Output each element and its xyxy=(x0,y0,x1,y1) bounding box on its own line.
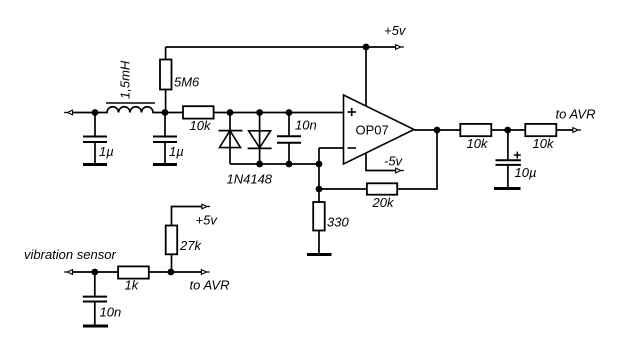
input arrow (signal in, left) xyxy=(64,110,72,115)
inductor L1 1,5mH xyxy=(95,103,165,113)
op-amp U1 OP07 xyxy=(344,95,415,164)
node A (input / C1 / L1 junction) xyxy=(92,109,99,116)
wire: node B to R2 xyxy=(165,112,183,114)
capacitor C2 1µ xyxy=(153,113,177,165)
svg-text:20k: 20k xyxy=(372,195,395,210)
power -5v arrow xyxy=(396,168,404,173)
node: filter tap (C4) xyxy=(504,127,511,134)
wire: op-amp V- pin xyxy=(366,153,396,171)
ground (C4) xyxy=(494,187,521,190)
capacitor C5 10n xyxy=(83,272,107,326)
capacitor C4 10µ (polarized) xyxy=(496,130,521,188)
value label 1,5mH (L1, rotated) xyxy=(118,60,133,99)
wire: node G to R4 xyxy=(319,188,367,190)
resistor R4 20k (feedback) xyxy=(367,183,397,194)
svg-text:10k: 10k xyxy=(533,136,555,151)
svg-text:10k: 10k xyxy=(190,118,212,133)
power +5v arrow (bottom) xyxy=(202,204,210,209)
svg-text:1k: 1k xyxy=(125,278,140,293)
node: D2 bottom junction xyxy=(256,161,263,168)
ground (C1) xyxy=(83,163,107,166)
wire: op-amp output to R5 xyxy=(414,129,460,131)
output arrow to AVR (bottom) xyxy=(201,270,209,275)
svg-text:-5v: -5v xyxy=(384,153,404,168)
node: C3 bottom junction xyxy=(286,161,293,168)
svg-text:5M6: 5M6 xyxy=(174,74,200,89)
wire: R6 to AVR arrow xyxy=(556,129,573,131)
wire: R4 to output node (up) xyxy=(397,130,437,189)
node G (feedback / R 330 junction) xyxy=(316,186,323,193)
svg-text:+5v: +5v xyxy=(196,212,219,227)
wire: sensor input to node H xyxy=(72,271,118,273)
ground (C5) xyxy=(83,325,108,328)
capacitor C1 1µ xyxy=(83,113,107,165)
wire: input arrow to node A xyxy=(72,112,95,114)
svg-text:1µ: 1µ xyxy=(99,144,114,159)
svg-text:1,5mH: 1,5mH xyxy=(118,60,133,99)
resistor R1 5M6 (vertical) xyxy=(160,47,172,113)
diode D1 1N4148 (cathode up) xyxy=(219,113,243,165)
power +5v arrow (top) xyxy=(396,45,404,50)
svg-text:to AVR: to AVR xyxy=(190,278,230,293)
wire: R7 to node I and AVR arrow xyxy=(149,271,202,273)
resistor R7 1k xyxy=(118,266,149,278)
node B (L1 / C2 / R 5M6 / R 10k junction) xyxy=(162,109,169,116)
diode D2 1N4148 (cathode down) xyxy=(248,113,272,165)
svg-text:OP07: OP07 xyxy=(356,122,389,137)
resistor R5 10k (output series 1) xyxy=(460,124,491,136)
svg-text:+5v: +5v xyxy=(384,23,407,38)
svg-text:10n: 10n xyxy=(100,305,122,320)
wire: op-amp V+ pin xyxy=(365,47,367,106)
node I (R7 / R8 / output junction) xyxy=(168,269,175,276)
svg-text:10µ: 10µ xyxy=(515,165,537,180)
node D (D2 top) xyxy=(256,109,263,116)
svg-text:vibration sensor: vibration sensor xyxy=(24,247,116,262)
svg-text:330: 330 xyxy=(327,215,349,230)
resistor R6 10k (output series 2) xyxy=(525,124,556,136)
wire: clamp bottom rail xyxy=(230,163,319,165)
wire: +5v rail (top) xyxy=(166,46,396,48)
output arrow to AVR (top) xyxy=(573,128,581,133)
capacitor C3 10n xyxy=(277,113,301,165)
wire: to op-amp inverting input xyxy=(319,147,344,149)
ground (R3) xyxy=(307,253,332,256)
resistor R3 330 (vertical) xyxy=(313,202,325,254)
svg-text:27k: 27k xyxy=(179,238,202,253)
resistor R2 10k (series input) xyxy=(183,106,214,118)
resistor R8 27k (pull-up, vertical) xyxy=(166,207,203,273)
node: output / feedback junction xyxy=(434,127,441,134)
node F (bottom rail / inverting branch) xyxy=(316,161,323,168)
wire: R2 to op-amp non-inverting input xyxy=(214,112,344,114)
node C (D1 top) xyxy=(227,109,234,116)
svg-text:10n: 10n xyxy=(295,118,317,133)
svg-text:to AVR: to AVR xyxy=(556,106,596,121)
svg-text:10k: 10k xyxy=(467,136,489,151)
ground (C2) xyxy=(153,163,177,166)
wire: inverting input branch (vertical) xyxy=(318,148,320,202)
svg-text:1µ: 1µ xyxy=(169,144,184,159)
svg-text:1N4148: 1N4148 xyxy=(227,172,273,187)
wire: R5 to R6 xyxy=(491,129,525,131)
node H (sensor / C5 / R7 junction) xyxy=(91,269,98,276)
node E (C3 top) xyxy=(286,109,293,116)
input arrow (vibration sensor, left) xyxy=(64,270,72,275)
node: +5v rail / op-amp V+ junction xyxy=(363,44,370,51)
